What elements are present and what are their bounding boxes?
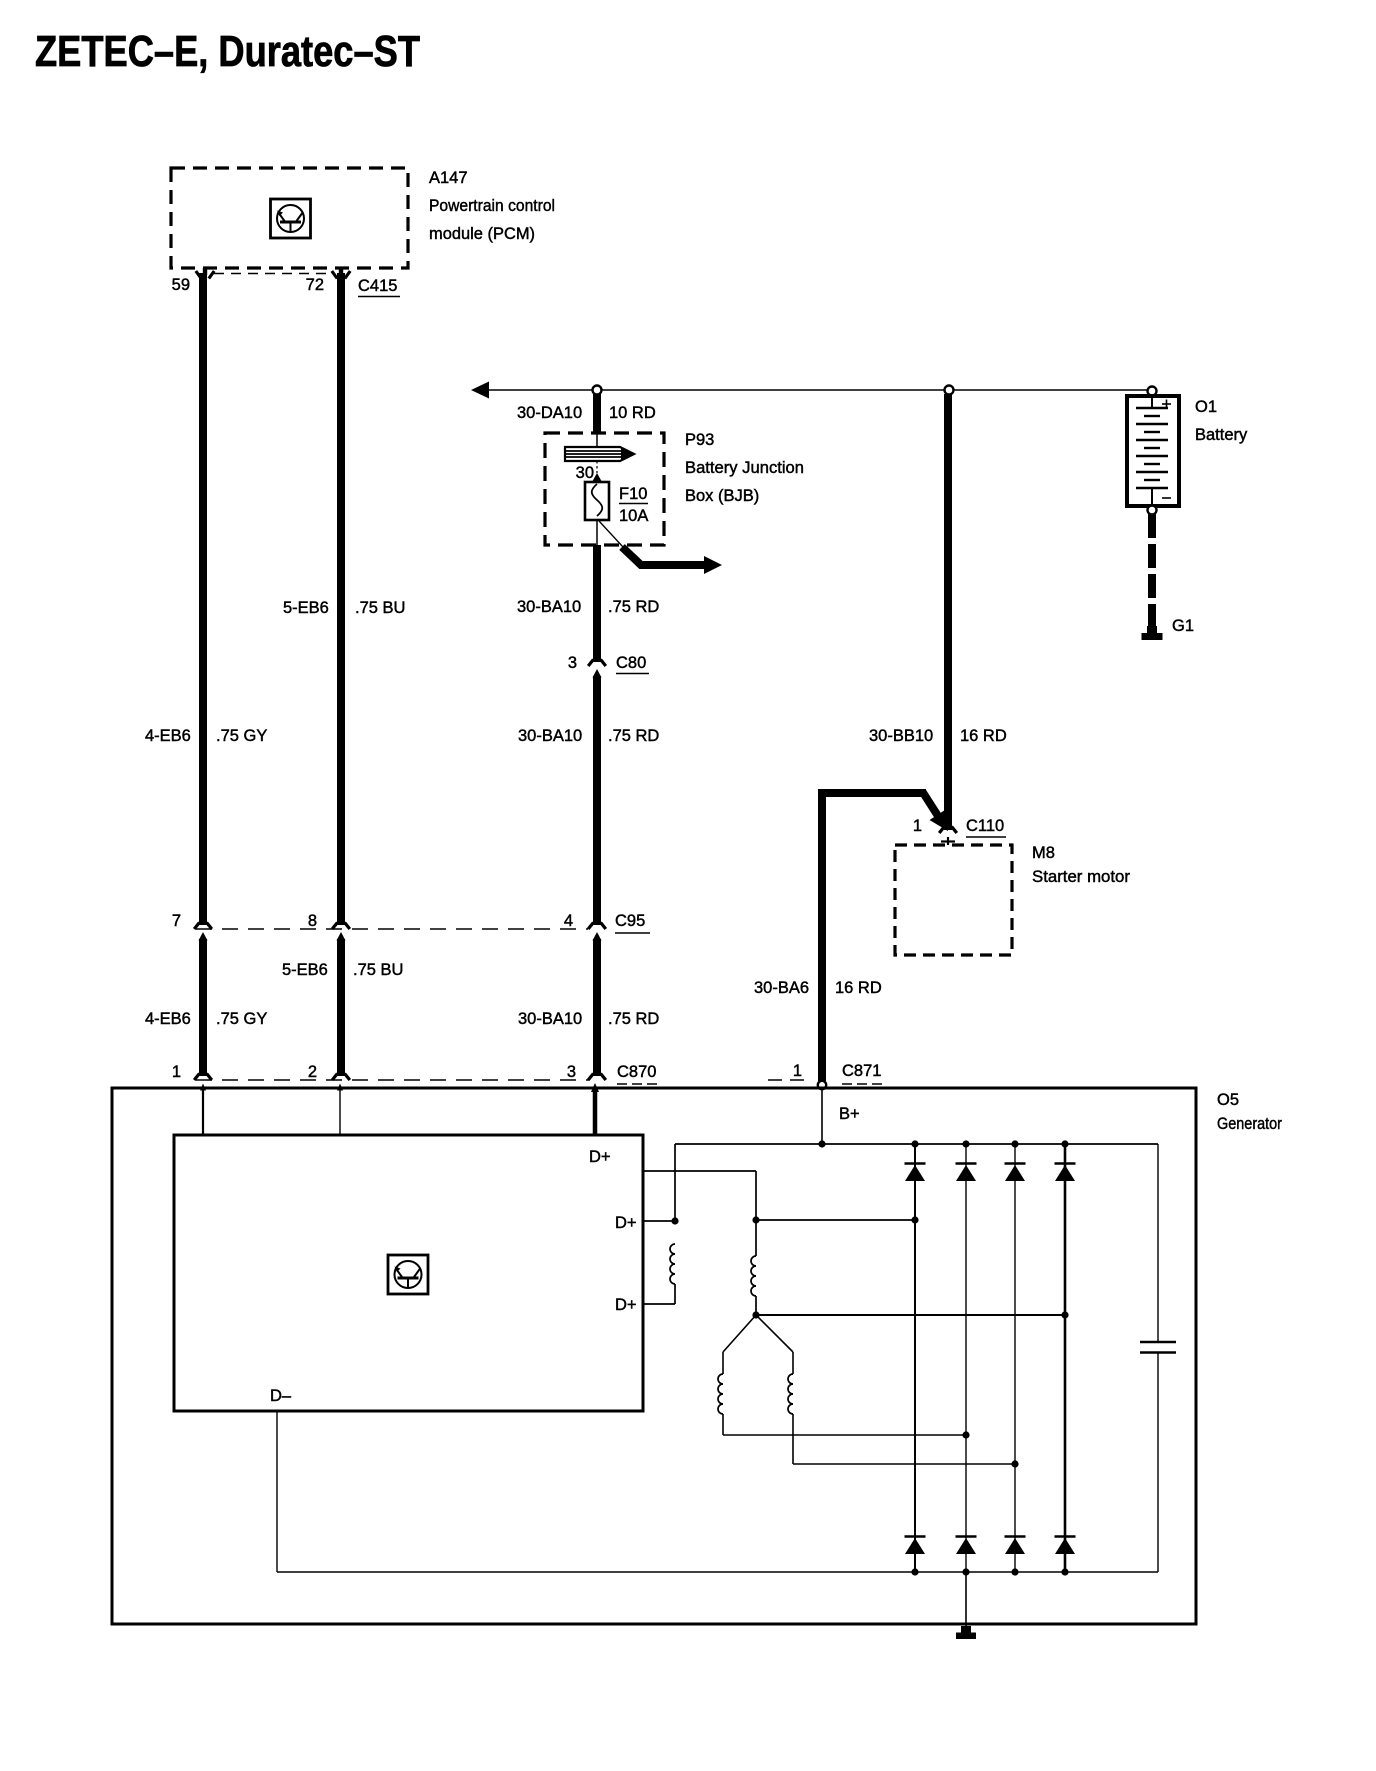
svg-text:C871: C871	[842, 1062, 881, 1080]
svg-text:5-EB6: 5-EB6	[283, 599, 329, 617]
stator coil L3	[722, 1352, 724, 1374]
svg-text:D+: D+	[589, 1148, 611, 1166]
node at battery negative	[1148, 506, 1157, 515]
connector C80	[593, 669, 602, 678]
D+ bottom wire	[643, 1303, 675, 1305]
svg-text:4-EB6: 4-EB6	[145, 727, 191, 745]
svg-text:72: 72	[306, 276, 324, 294]
wire 30-BA6 generator to starter	[818, 789, 926, 797]
wire 30-DA10 horizontal feed line	[483, 389, 1150, 391]
generator pin 3 lead	[591, 1083, 599, 1092]
ground bus	[277, 1571, 1158, 1573]
svg-text:30-BA10: 30-BA10	[517, 598, 581, 616]
svg-text:30-DA10: 30-DA10	[517, 404, 582, 422]
svg-text:7: 7	[172, 912, 181, 930]
diode leg 3	[1014, 1144, 1016, 1572]
svg-text:C110: C110	[966, 817, 1004, 835]
svg-text:10A: 10A	[619, 507, 648, 525]
wire B+ into generator	[821, 1090, 823, 1145]
wire 30-DA10 drop into BJB	[593, 394, 601, 434]
svg-text:30-BA10: 30-BA10	[518, 727, 582, 745]
svg-text:16 RD: 16 RD	[960, 727, 1007, 745]
svg-text:A147: A147	[429, 169, 468, 187]
svg-text:30: 30	[576, 464, 594, 482]
generator pin 1 lead	[200, 1084, 206, 1091]
stator coil L2	[751, 1256, 756, 1296]
B+ bus	[675, 1143, 1158, 1145]
wire 4-EB6 segment PCM to C95	[199, 273, 207, 925]
connector C870 dashed line	[196, 1079, 589, 1081]
pin 30 of fuse	[596, 461, 598, 473]
svg-text:.75 RD: .75 RD	[608, 598, 659, 616]
svg-text:1: 1	[793, 1062, 802, 1080]
svg-text:Box (BJB): Box (BJB)	[685, 487, 759, 505]
junction dots	[818, 1140, 825, 1147]
fuse output lead	[596, 520, 598, 546]
svg-text:Battery Junction: Battery Junction	[685, 459, 804, 477]
svg-text:1: 1	[172, 1063, 181, 1081]
svg-text:D–: D–	[270, 1387, 292, 1405]
svg-text:C95: C95	[615, 912, 645, 930]
svg-text:.75 RD: .75 RD	[608, 1010, 659, 1028]
svg-text:.75 GY: .75 GY	[216, 1010, 267, 1028]
connector C415 dashed line	[214, 273, 332, 275]
node at starter branch	[945, 386, 954, 395]
D+ middle wire	[643, 1220, 675, 1222]
diode leg 4	[1064, 1144, 1067, 1572]
svg-text:ZETEC–E, Duratec–ST: ZETEC–E, Duratec–ST	[35, 27, 420, 76]
svg-text:Starter motor: Starter motor	[1032, 868, 1131, 886]
wire 5-EB6 segment PCM to C95	[337, 273, 345, 925]
svg-text:59: 59	[172, 276, 190, 294]
svg-text:C870: C870	[617, 1063, 656, 1081]
wire 30-BA10 segment BJB to C80	[593, 545, 601, 662]
suppression capacitor	[1157, 1144, 1159, 1341]
svg-text:.75 BU: .75 BU	[353, 961, 403, 979]
rectifier diodes bottom row	[905, 1535, 926, 1538]
C415 pin 72	[339, 268, 343, 275]
ground lead dashed wire	[1148, 514, 1156, 628]
svg-text:.75 RD: .75 RD	[608, 727, 659, 745]
svg-text:M8: M8	[1032, 844, 1055, 862]
arrow into C110	[930, 810, 949, 831]
svg-text:F10: F10	[619, 485, 647, 503]
wire 30-BA10 segment C80 to C95	[593, 676, 601, 925]
rectifier diodes top row	[905, 1162, 926, 1165]
svg-text:C80: C80	[616, 654, 646, 672]
generator O5 box	[112, 1088, 1196, 1624]
svg-text:.75 BU: .75 BU	[355, 599, 405, 617]
svg-text:C415: C415	[358, 277, 397, 295]
phase wire to diode leg 4	[756, 1314, 1065, 1316]
node at battery positive	[1148, 387, 1157, 396]
diode leg 1	[914, 1144, 916, 1572]
svg-text:5-EB6: 5-EB6	[282, 961, 328, 979]
phase node diagonals	[723, 1315, 756, 1352]
svg-text:.75 GY: .75 GY	[216, 727, 267, 745]
battery junction box P93 dashed box	[545, 433, 664, 545]
svg-text:30-BA6: 30-BA6	[754, 979, 809, 997]
svg-text:B+: B+	[839, 1105, 860, 1123]
generator pin 2 lead	[337, 1084, 343, 1091]
svg-text:4-EB6: 4-EB6	[145, 1010, 191, 1028]
wire coil2 top to diode leg 1	[756, 1219, 915, 1221]
battery - terminal mark	[1162, 497, 1171, 499]
wire 4-EB6 segment C95 to C870	[199, 932, 208, 941]
diode leg 2	[965, 1144, 967, 1572]
node at C871	[818, 1081, 826, 1089]
D+ top wire	[643, 1170, 756, 1172]
PCM internal transistor symbol	[271, 199, 311, 238]
svg-text:Battery: Battery	[1195, 426, 1248, 444]
connector C110 pin 1	[939, 827, 957, 834]
starter motor M8 dashed box	[895, 845, 1012, 955]
voltage regulator box	[174, 1135, 643, 1411]
wire 5-EB6 segment C95 to C870	[337, 932, 346, 941]
fuse F10 10A	[585, 482, 609, 520]
svg-text:3: 3	[567, 1063, 576, 1081]
svg-text:D+: D+	[615, 1214, 637, 1232]
stator coil L4	[792, 1352, 794, 1374]
wire 30-BB10 battery feed to starter	[944, 394, 952, 830]
arrow left (to other circuits)	[471, 382, 489, 399]
svg-text:Generator: Generator	[1217, 1115, 1282, 1133]
node at fuse tap	[593, 386, 602, 395]
C415 pin 59	[203, 268, 207, 275]
bus left drop to exciter coil	[674, 1144, 676, 1222]
battery + terminal mark	[1162, 403, 1171, 405]
svg-text:2: 2	[308, 1063, 317, 1081]
svg-text:8: 8	[308, 912, 317, 930]
svg-text:P93: P93	[685, 431, 714, 449]
svg-text:30-BB10: 30-BB10	[869, 727, 933, 745]
connector C871 dashed line	[768, 1079, 812, 1081]
svg-text:16 RD: 16 RD	[835, 979, 882, 997]
connector C95 dashed line	[196, 928, 588, 930]
exciter coil L1	[670, 1244, 675, 1284]
svg-text:O5: O5	[1217, 1091, 1239, 1109]
generator internal ground	[965, 1572, 967, 1626]
D- wire	[276, 1411, 278, 1572]
svg-text:D+: D+	[615, 1296, 637, 1314]
svg-text:G1: G1	[1172, 617, 1194, 635]
regulator transistor symbol	[388, 1255, 428, 1294]
BJB busbar symbol	[565, 447, 634, 461]
svg-text:3: 3	[568, 654, 577, 672]
svg-text:O1: O1	[1195, 398, 1217, 416]
wire 30-BA10 segment C95 to C870	[593, 932, 602, 941]
svg-text:Powertrain control: Powertrain control	[429, 197, 555, 215]
svg-text:1: 1	[913, 817, 922, 835]
battery cells	[1151, 398, 1153, 407]
svg-text:module (PCM): module (PCM)	[429, 225, 535, 243]
svg-text:10 RD: 10 RD	[609, 404, 656, 422]
svg-text:4: 4	[564, 912, 573, 930]
svg-text:30-BA10: 30-BA10	[518, 1010, 582, 1028]
PCM module A147 dashed box	[171, 168, 408, 268]
battery O1 box	[1127, 396, 1179, 506]
ground G1	[1142, 626, 1163, 640]
arrow to other circuits from fuse	[622, 547, 706, 565]
